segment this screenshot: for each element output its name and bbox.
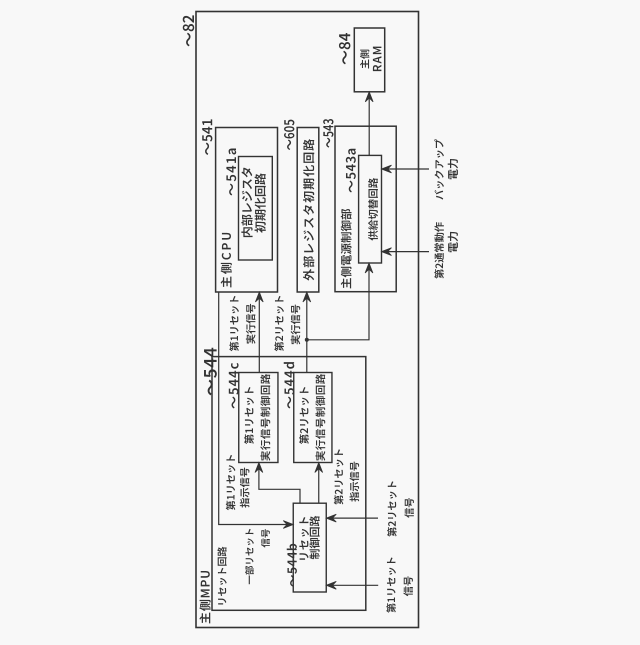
wire second reset instruction signal 544b to 544d: [318, 464, 320, 503]
box 544c first reset execution signal control circuit: [239, 373, 278, 463]
box 82 main-side MPU outer frame: [196, 12, 419, 628]
label first reset line1: [229, 296, 239, 351]
title main-side CPU: [221, 233, 232, 287]
title external register initialization circuit: [303, 139, 314, 281]
label electric power line2: [448, 232, 458, 252]
label 544b: [287, 544, 297, 587]
label signal line2: [403, 576, 412, 596]
label signal line2: [261, 529, 270, 547]
label 541: [202, 119, 212, 155]
wire first reset signal into 544b: [328, 584, 379, 586]
wire first reset execution signal 544c to CPU 541: [258, 293, 260, 372]
title supply switching circuit: [368, 178, 378, 241]
label backup line1: [434, 139, 444, 200]
junction node on second reset execution signal wire: [305, 338, 309, 342]
label 605: [284, 120, 294, 150]
text RAM: [373, 47, 381, 71]
title reset circuit: [217, 547, 226, 605]
label first reset instruction line1: [226, 455, 236, 510]
text 544b line1: [299, 517, 309, 560]
label 82: [183, 15, 194, 46]
wire second reset signal into 544b: [328, 517, 378, 519]
text 544c line2: [260, 374, 270, 461]
label second reset execution signal line2: [291, 305, 301, 345]
label 84: [339, 33, 350, 64]
label electric power line2: [448, 159, 458, 179]
label 541a: [226, 149, 236, 196]
box 84 main-side RAM: [354, 28, 384, 92]
label 543: [323, 119, 333, 148]
wire first reset instruction signal 544b to 544c: [259, 464, 300, 503]
text 544d line1: [299, 387, 309, 444]
label second normal operation line1: [434, 222, 444, 278]
box 544d second reset execution signal control circuit: [294, 373, 332, 463]
wire branch second reset execution signal to 543a: [307, 264, 369, 340]
box 544 reset circuit: [212, 357, 366, 611]
wire second reset execution signal 544d to 605: [306, 293, 308, 372]
label second reset instruction line1: [334, 449, 344, 504]
box 541 main-side CPU: [216, 128, 278, 293]
box 543 main-side power supply control unit: [335, 126, 396, 292]
box 605 external register initialization circuit: [297, 128, 319, 293]
whole patent figure drawn upright then rotated 90deg CCW: [183, 12, 458, 628]
text 544d line2: [315, 374, 325, 461]
label second reset signal line1: [387, 481, 397, 536]
text 544b line2: [309, 516, 319, 560]
text initialization circuit: [255, 173, 266, 233]
label first reset execution signal line2: [246, 304, 256, 344]
title main-side MPU: [199, 571, 210, 623]
text internal register: [241, 167, 252, 237]
box 544b reset control circuit: [293, 503, 326, 592]
label 544d: [284, 362, 295, 408]
label partial reset line1: [245, 529, 254, 584]
label instruction signal line2: [350, 462, 360, 502]
title main-side power control unit: [341, 209, 352, 289]
box 543a supply switching circuit: [359, 155, 382, 263]
text main-side: [360, 50, 369, 69]
text 544c line1: [244, 387, 254, 444]
wire supply switching circuit 543a to RAM 84: [368, 93, 370, 155]
label first reset signal line1: [386, 557, 396, 612]
label second reset line1: [274, 296, 284, 351]
label 544c: [229, 363, 239, 409]
box 541a internal register initialization circuit: [239, 157, 273, 261]
wire partial reset signal from CPU 541 to reset control circuit 544b: [219, 292, 292, 525]
label 544: [204, 348, 217, 396]
label instruction signal line2: [240, 468, 250, 508]
label 543a: [346, 149, 356, 193]
label signal line2: [404, 498, 413, 518]
wire backup power into 543a: [383, 168, 429, 170]
wire second normal operation power into 543a: [383, 251, 429, 253]
